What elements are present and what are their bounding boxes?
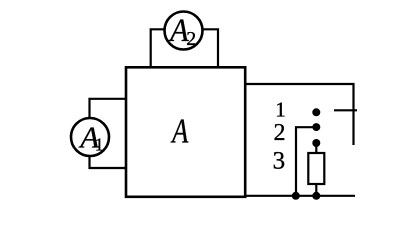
svg-text:1: 1	[275, 98, 286, 122]
svg-text:3: 3	[273, 147, 286, 174]
svg-text:A: A	[170, 111, 189, 150]
svg-text:1: 1	[95, 135, 104, 155]
svg-text:2: 2	[186, 28, 196, 50]
svg-text:2: 2	[274, 120, 286, 146]
